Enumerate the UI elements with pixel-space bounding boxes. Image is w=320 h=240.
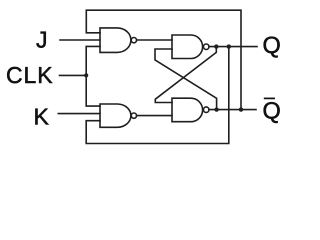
node Qbar feedback junction xyxy=(239,107,243,111)
svg-text:Q: Q xyxy=(263,32,281,58)
wire Q feedback bottom xyxy=(86,47,229,144)
node CLK junction xyxy=(84,73,88,77)
wire J input xyxy=(60,39,100,41)
node Q feedback junction xyxy=(227,44,231,48)
wire U2 output to U4 xyxy=(137,115,172,117)
wire CLK vertical branch xyxy=(86,46,100,106)
svg-text:J: J xyxy=(36,27,48,53)
NAND gate U2 xyxy=(100,104,137,127)
NAND gate U1 xyxy=(100,28,137,53)
svg-text:Q: Q xyxy=(263,98,281,124)
wire Q output xyxy=(209,46,257,48)
NAND gate U4 xyxy=(172,98,209,122)
node Q cross junction xyxy=(214,44,218,48)
overbar of Qbar xyxy=(264,97,275,99)
NAND gate U3 xyxy=(172,35,209,59)
wire CLK input xyxy=(60,74,87,76)
wire Qbar feedback top xyxy=(86,10,241,109)
wire K input xyxy=(58,113,100,115)
wire Qbar output xyxy=(209,109,256,111)
svg-text:CLK: CLK xyxy=(6,62,53,88)
wire cross-couple Q to U4 xyxy=(155,47,216,103)
wire U1 output to U3 xyxy=(137,39,172,41)
wire cross-couple Qbar to U3 xyxy=(155,49,217,110)
svg-text:K: K xyxy=(34,103,50,129)
node Qbar cross junction xyxy=(214,107,218,111)
